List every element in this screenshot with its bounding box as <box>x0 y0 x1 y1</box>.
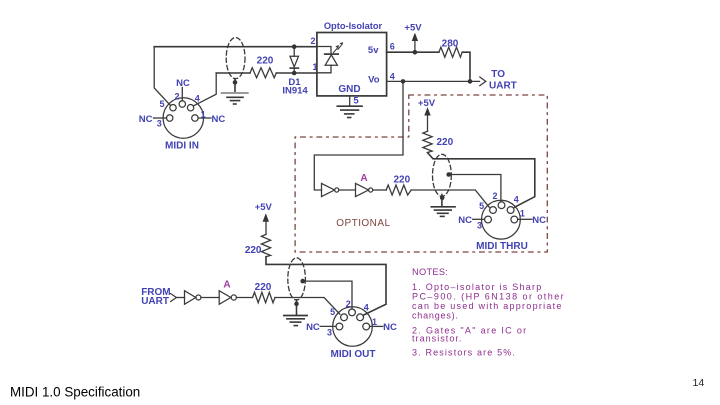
connector MIDI IN (DIN-5) <box>163 98 203 138</box>
pin 2 <box>498 202 505 209</box>
svg-text:NC: NC <box>306 322 320 333</box>
svg-text:NC: NC <box>458 215 472 226</box>
pin 1 <box>363 323 370 330</box>
wire: MIDI IN top (DIN pin 5 to opto pin 2) <box>154 46 317 48</box>
svg-text:1: 1 <box>520 208 525 218</box>
gate A inverter 2 (THRU) <box>356 183 369 196</box>
gate A inverter 2 (OUT) <box>219 291 231 305</box>
wire: opto pin 5 stub <box>349 96 351 106</box>
diode D1 1N914 <box>293 47 295 57</box>
node: Vo junction (feedback tap) <box>401 79 406 84</box>
wire: feedback from Vo to THRU gates <box>314 81 403 190</box>
pin 5 <box>341 314 348 321</box>
svg-text:NC: NC <box>176 78 190 89</box>
pin 3 <box>167 115 173 121</box>
gate inverter 1 (OUT) <box>185 291 196 305</box>
connector MIDI OUT (DIN-5) <box>333 307 373 347</box>
wire: pin2 NC stub <box>181 88 183 101</box>
svg-text:220: 220 <box>393 175 410 186</box>
svg-text:IN914: IN914 <box>282 86 308 97</box>
pin 4 <box>187 105 193 111</box>
node: D1 top junction <box>292 44 297 49</box>
resistor 220 (OUT pull-up) <box>261 234 270 256</box>
wire: OUT pin 4 feed <box>266 257 386 315</box>
svg-text:5v: 5v <box>368 45 379 56</box>
arrow: FROM UART <box>171 294 177 302</box>
arrow: TO UART <box>480 77 486 86</box>
svg-text:2: 2 <box>310 36 315 46</box>
pin 3 <box>336 323 343 330</box>
ground (opto GND) <box>337 105 362 107</box>
wire <box>373 189 387 191</box>
ground (OUT shield) <box>284 315 307 317</box>
wire: MIDI IN lower (DIN pin 4 to opto pin 1) <box>216 72 317 74</box>
wire: to THRU pin 5 <box>411 190 489 207</box>
wire <box>201 297 219 299</box>
pin 4 <box>357 314 364 321</box>
connector MIDI THRU (DIN-5) <box>482 200 521 239</box>
wire: THRU pin 2 to shield <box>449 175 501 202</box>
cable shield (MIDI IN) <box>226 38 245 79</box>
svg-text:4: 4 <box>390 72 395 82</box>
svg-text:+5V: +5V <box>255 202 273 213</box>
wire: pin3 NC stub (OUT) <box>320 325 336 327</box>
wire: pin3 NC stub (THRU) <box>473 218 485 220</box>
svg-text:4: 4 <box>364 303 369 313</box>
svg-text:GND: GND <box>338 84 360 95</box>
svg-text:A: A <box>223 279 230 290</box>
svg-text:MIDI OUT: MIDI OUT <box>331 349 376 360</box>
pin 5 <box>490 207 497 214</box>
node: shield tap (THRU) <box>446 172 451 177</box>
svg-text:PC–900. (HP 6N138 or other: PC–900. (HP 6N138 or other <box>412 291 565 301</box>
svg-text:3: 3 <box>157 118 162 128</box>
svg-text:NC: NC <box>139 114 153 125</box>
resistor 220 (MIDI IN series) <box>250 68 276 78</box>
pin 1 <box>192 115 198 121</box>
svg-text:3: 3 <box>477 220 482 230</box>
svg-text:1. Opto–isolator is Sharp: 1. Opto–isolator is Sharp <box>412 282 543 292</box>
wire: pin3 NC stub <box>154 117 167 119</box>
svg-text:5: 5 <box>479 201 484 211</box>
svg-text:NC: NC <box>532 215 546 226</box>
svg-text:14: 14 <box>693 377 705 389</box>
svg-text:220: 220 <box>245 245 262 256</box>
svg-text:+5V: +5V <box>418 98 436 109</box>
node: 280 resistor junction <box>468 79 473 84</box>
svg-text:+5V: +5V <box>404 23 422 34</box>
wire: drop to DIN pin 4 <box>193 73 216 106</box>
svg-text:2: 2 <box>346 299 351 309</box>
wire <box>339 189 356 191</box>
svg-text:Vo: Vo <box>368 74 380 85</box>
svg-text:UART: UART <box>489 80 517 91</box>
optional section boundary (dash-dot box) <box>295 95 547 252</box>
cable shield (MIDI OUT) <box>288 258 306 300</box>
svg-text:OPTIONAL: OPTIONAL <box>336 218 390 229</box>
svg-text:4: 4 <box>195 94 200 104</box>
resistor 280 <box>439 47 462 57</box>
gate A inverter 1 (THRU) <box>322 183 335 196</box>
svg-text:UART: UART <box>141 296 169 307</box>
node: pin6 +5V junction <box>413 50 418 55</box>
pin 4 <box>507 207 514 214</box>
resistor 220 (OUT series) <box>253 292 276 302</box>
svg-text:1: 1 <box>201 109 206 119</box>
wire: pin1 NC stub <box>198 117 211 119</box>
svg-text:2: 2 <box>174 91 179 101</box>
svg-text:Opto-Isolator: Opto-Isolator <box>324 21 383 31</box>
LED inside opto <box>317 47 331 55</box>
svg-text:2: 2 <box>492 191 497 201</box>
pin 5 <box>170 105 176 111</box>
resistor 220 (THRU series) <box>386 185 411 195</box>
svg-text:TO: TO <box>491 69 505 80</box>
wire: OUT pin 2 to shield <box>303 281 352 309</box>
svg-text:4: 4 <box>514 195 519 205</box>
pin 1 <box>511 216 518 223</box>
node: D1 bottom junction <box>292 71 297 76</box>
svg-text:6: 6 <box>390 42 395 52</box>
svg-text:1: 1 <box>372 317 377 327</box>
svg-text:MIDI 1.0 Specification: MIDI 1.0 Specification <box>10 385 140 400</box>
pin 2 <box>179 101 185 107</box>
op-amp/IC U1 opto-isolator box <box>317 33 387 96</box>
wire: pin1 NC stub (THRU) <box>518 218 532 220</box>
svg-text:5: 5 <box>353 96 359 107</box>
resistor 220 (THRU pull-up) <box>423 131 432 152</box>
shield ground tap (THRU) <box>441 195 443 207</box>
shield ground tap (MIDI IN) <box>234 79 236 93</box>
shield ground tap (OUT) <box>296 300 298 316</box>
svg-text:NC: NC <box>212 114 226 125</box>
ground (MIDI IN shield) <box>222 92 248 94</box>
wire <box>176 297 184 299</box>
cable shield (MIDI THRU) <box>433 154 452 196</box>
svg-text:5: 5 <box>159 99 164 109</box>
wire: opto Vo output to UART <box>387 80 480 82</box>
svg-text:changes).: changes). <box>412 310 459 320</box>
svg-text:A: A <box>360 173 367 184</box>
power +5V (opto supply) <box>414 39 416 53</box>
svg-text:220: 220 <box>437 137 454 148</box>
svg-text:5: 5 <box>330 307 335 317</box>
svg-text:NC: NC <box>383 322 397 333</box>
svg-text:transistor.: transistor. <box>412 333 462 343</box>
wire: pin1 NC stub (OUT) <box>370 325 383 327</box>
svg-text:MIDI THRU: MIDI THRU <box>476 241 528 252</box>
svg-text:220: 220 <box>255 282 272 293</box>
wire: opto pin 6 to 280 resistor <box>387 52 470 81</box>
wire: THRU pin 4 feed <box>428 153 535 208</box>
wire: to OUT pin 5 <box>275 298 340 315</box>
wire <box>236 297 252 299</box>
LED emission arrows <box>333 49 337 53</box>
svg-text:3. Resistors are 5%.: 3. Resistors are 5%. <box>412 348 516 358</box>
svg-text:280: 280 <box>442 38 459 49</box>
svg-text:220: 220 <box>257 56 274 67</box>
wire: MIDI IN left drop to DIN pin 5 <box>154 47 170 106</box>
svg-text:NOTES:: NOTES: <box>412 267 448 277</box>
pin 3 <box>485 216 492 223</box>
svg-text:3: 3 <box>327 327 332 337</box>
svg-text:MIDI IN: MIDI IN <box>165 141 199 152</box>
node: shield tap (OUT) <box>300 279 305 284</box>
pin 2 <box>349 309 356 316</box>
ground (THRU shield) <box>431 206 455 208</box>
